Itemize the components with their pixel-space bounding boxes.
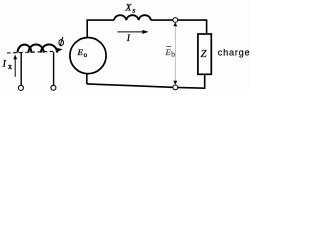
- svg-text:X: X: [125, 2, 132, 12]
- svg-text:s: s: [132, 6, 135, 15]
- svg-text:x: x: [8, 62, 12, 71]
- svg-text:b: b: [171, 50, 175, 59]
- svg-text:I: I: [2, 59, 7, 70]
- svg-text:charge: charge: [218, 48, 250, 58]
- svg-text:E: E: [77, 47, 84, 57]
- svg-text:Z: Z: [201, 49, 207, 60]
- svg-text:o: o: [84, 51, 88, 59]
